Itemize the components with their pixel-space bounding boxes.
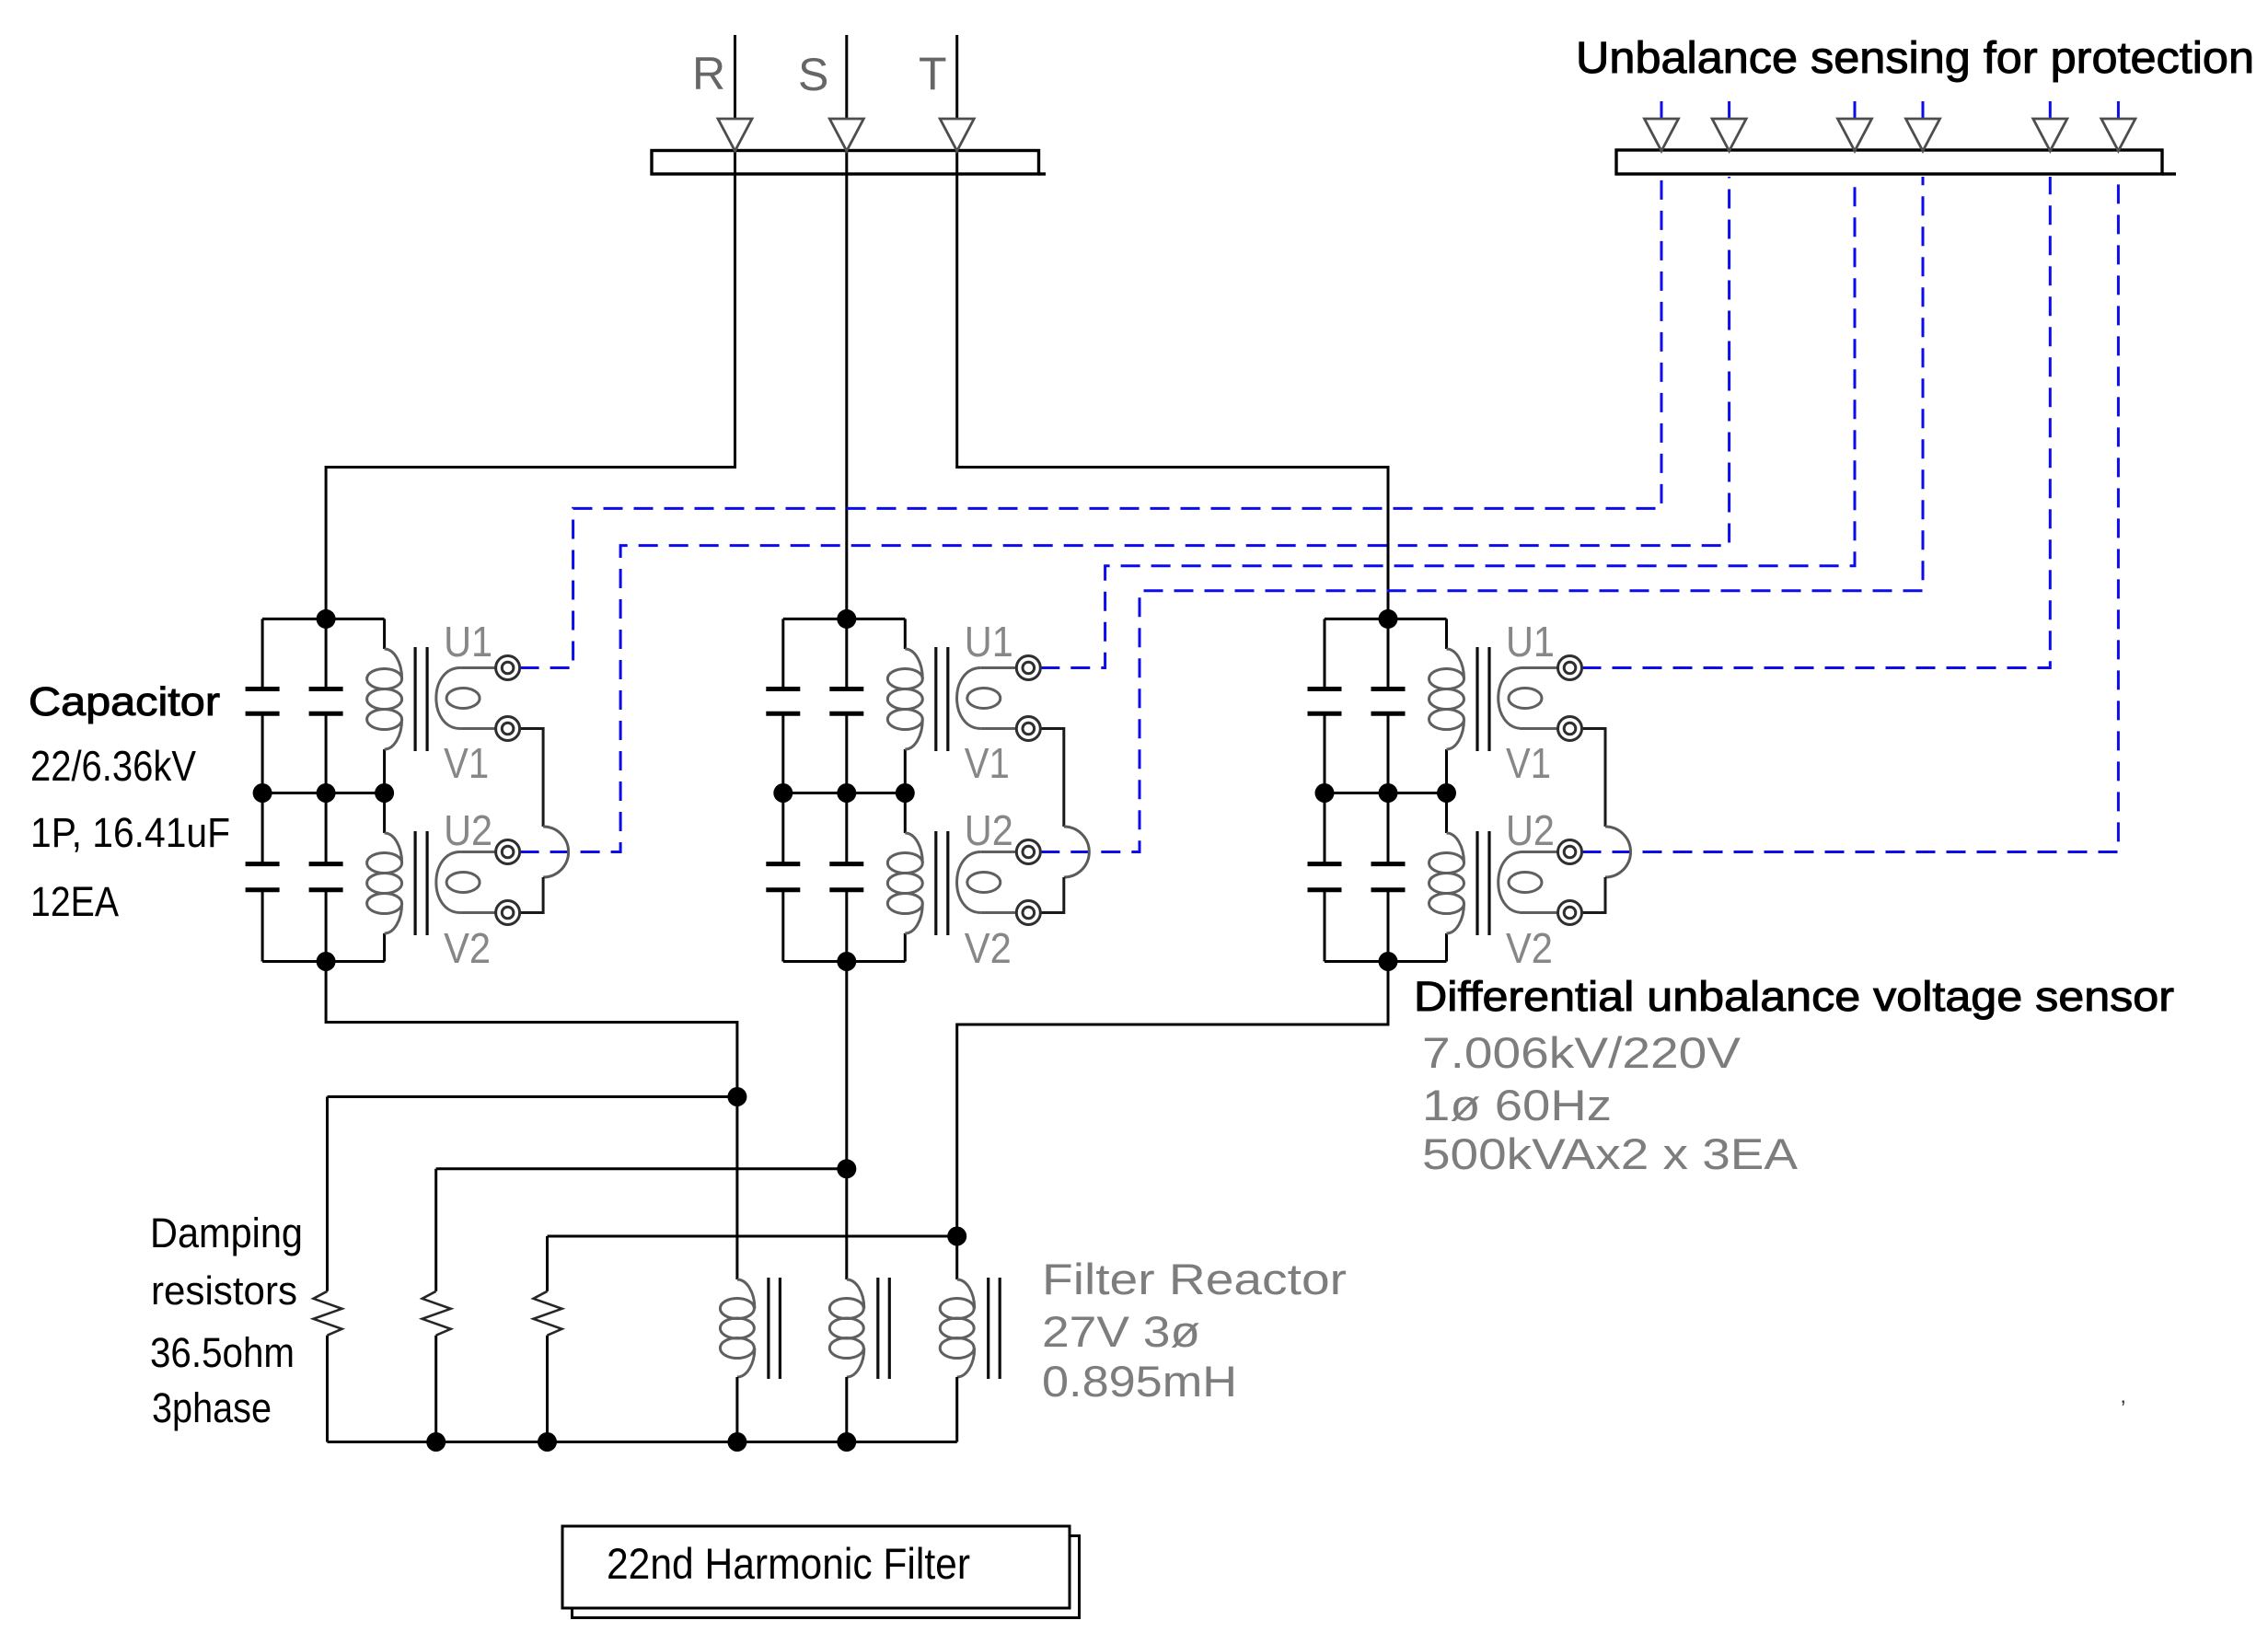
wire: reactor L2 to bottom rail [845, 1377, 848, 1442]
capacitor right block C3 (middle upper) [1371, 689, 1406, 714]
left block U2 sensing line [520, 177, 1730, 852]
label: Differential unbalance voltage sensor [1414, 973, 2174, 1020]
node right block mid junctions [1315, 783, 1457, 803]
transformer left block VT2 primary coil [367, 833, 402, 933]
node left block top junction [317, 609, 336, 629]
capacitor right block C1 (left upper) [1308, 689, 1342, 714]
sensing input stub 5 (blue dashed) [2049, 101, 2052, 119]
transformer left block VT2 core [415, 831, 427, 935]
svg-text:1P, 16.41uF: 1P, 16.41uF [30, 809, 230, 856]
label right block U2 [1506, 806, 1555, 854]
terminal left block V2 [496, 901, 520, 925]
middle block U2 sensing line [1040, 177, 1923, 852]
middle block U1 sensing line [1040, 177, 1855, 668]
arrow on sensing input 3 [1838, 119, 1872, 151]
phase R wire (vertical drop + feed to left block) [326, 35, 735, 619]
label: Damping [150, 1210, 303, 1256]
wire: left block middle bar [262, 792, 385, 794]
label: 36.5ohm [150, 1329, 295, 1376]
resistor R1 (damping) [314, 1097, 342, 1442]
sensing input stub 1 (blue dashed) [1660, 101, 1663, 119]
label left block V1 [444, 739, 489, 787]
node left block bottom junction [317, 952, 336, 971]
svg-text:Differential unbalance voltage: Differential unbalance voltage sensor [1414, 973, 2174, 1020]
title: Unbalance sensing for protection [1576, 34, 2254, 83]
terminal middle block U2 [1016, 840, 1040, 864]
svg-text:7.006kV/220V: 7.006kV/220V [1422, 1028, 1741, 1077]
node rail1-reactor junction [727, 1087, 746, 1106]
svg-text:Filter Reactor: Filter Reactor [1042, 1255, 1347, 1303]
transformer left block VT1 primary coil [367, 649, 402, 749]
capacitor right block C2 (left lower) [1308, 864, 1342, 890]
svg-text:22nd Harmonic Filter: 22nd Harmonic Filter [607, 1539, 970, 1588]
wire: middle block top bar [783, 618, 906, 620]
wire: damping rail 1 [328, 1095, 737, 1098]
node rail2-reactor junction [837, 1159, 856, 1178]
resistor R2 (damping) [422, 1169, 451, 1442]
right block U1 sensing line [1582, 177, 2051, 668]
svg-text:3phase: 3phase [152, 1384, 272, 1431]
arrow on sensing input 2 [1712, 119, 1746, 151]
node middle block mid junctions [773, 783, 915, 803]
left block U1 sensing line [520, 177, 1661, 668]
stray apostrophe mark [2121, 1396, 2125, 1421]
terminal middle block V2 [1016, 901, 1040, 925]
svg-text:1ø 60Hz: 1ø 60Hz [1422, 1081, 1612, 1129]
node middle block bottom junction [837, 952, 856, 971]
label T [919, 48, 947, 99]
wire: left block V1-V2 link with crossover arc [520, 729, 569, 913]
transformer right block VT1 secondary coil [1498, 668, 1557, 729]
label right block U1 [1506, 618, 1555, 666]
wire: middle block middle bar [783, 792, 906, 794]
sensing input stub 4 (blue dashed) [1922, 101, 1925, 119]
svg-text:U2: U2 [1506, 806, 1555, 854]
label left block U1 [444, 618, 492, 666]
wire: left block transformer branch [383, 619, 386, 961]
wire: left block left string [261, 619, 264, 961]
main busbar [652, 151, 1046, 175]
filter reactor L2 coil [829, 1279, 864, 1377]
node bottom rail junctions [426, 1432, 856, 1452]
svg-text:U2: U2 [965, 806, 1013, 854]
wire: right block top bar [1325, 618, 1447, 620]
label middle block U2 [965, 806, 1013, 854]
label: 500kVAx2 x 3EA [1422, 1129, 1799, 1178]
arrow on phase T [940, 119, 974, 151]
label middle block V1 [965, 739, 1010, 787]
wire: left block to reactor column [326, 962, 737, 1280]
phase S wire (vertical drop to middle block) [845, 35, 848, 619]
arrow on sensing input 4 [1906, 119, 1940, 151]
wire: damping rail 2 [436, 1167, 847, 1170]
capacitor left block C1 (left upper) [246, 689, 280, 714]
phase T wire (vertical drop + feed to right block) [957, 35, 1388, 619]
label middle block U1 [965, 618, 1013, 666]
label S [798, 49, 828, 100]
transformer right block VT2 primary coil [1429, 833, 1464, 933]
svg-text:U1: U1 [965, 618, 1013, 666]
terminal right block V2 [1558, 901, 1582, 925]
transformer middle block VT2 core [936, 831, 948, 935]
terminal left block U1 [496, 656, 520, 680]
node rail3-reactor junction [947, 1227, 966, 1246]
capacitor middle block C3 (middle upper) [829, 689, 863, 714]
svg-text:U1: U1 [444, 618, 492, 666]
label: 12EA [30, 878, 119, 925]
wire: right block V1-V2 link with crossover arc [1582, 729, 1631, 913]
label: 1phase 60Hz [1422, 1081, 1612, 1129]
transformer right block VT2 core [1477, 831, 1489, 935]
transformer left block VT1 secondary coil [436, 668, 495, 729]
transformer right block VT2 secondary coil [1498, 852, 1557, 913]
arrow on phase S [829, 119, 863, 151]
transformer left block VT2 secondary coil [436, 852, 495, 913]
wire: middle block transformer branch [904, 619, 907, 961]
sensing input stub 3 (blue dashed) [1854, 101, 1857, 119]
transformer middle block VT1 primary coil [887, 649, 922, 749]
terminal right block V1 [1558, 717, 1582, 741]
sensing input stub 2 (blue dashed) [1728, 101, 1730, 119]
wire: left block top bar [262, 618, 385, 620]
svg-text:12EA: 12EA [30, 878, 119, 925]
filter reactor L2 core [878, 1278, 890, 1379]
wire: middle block left string [781, 619, 784, 961]
node middle block top junction [837, 609, 856, 629]
wire: bottom rail [328, 1441, 957, 1443]
arrow on phase R [718, 119, 752, 151]
wire: right block bottom bar [1325, 960, 1447, 963]
capacitor left block C2 (left lower) [246, 864, 280, 890]
transformer right block VT1 core [1477, 647, 1489, 751]
svg-text:resistors: resistors [151, 1268, 297, 1314]
svg-text:36.5ohm: 36.5ohm [150, 1329, 295, 1376]
wire: middle block feed string [845, 619, 848, 961]
wire: reactor L1 to bottom rail [735, 1377, 738, 1442]
label: 22nd Harmonic Filter [607, 1539, 970, 1588]
svg-text:U1: U1 [1506, 618, 1555, 666]
arrow on sensing input 5 [2033, 119, 2067, 151]
wire: reactor L3 to bottom rail [955, 1377, 958, 1442]
wire: middle block V1-V2 link with crossover arc [1040, 729, 1089, 913]
label: Filter Reactor [1042, 1255, 1347, 1303]
terminal left block V1 [496, 717, 520, 741]
node left block mid junctions [253, 783, 395, 803]
filter reactor L3 coil [940, 1279, 975, 1377]
label: Capacitor [29, 679, 220, 724]
terminal right block U2 [1558, 840, 1582, 864]
sensing input stub 6 (blue dashed) [2117, 101, 2120, 119]
wire: middle block bottom bar [783, 960, 906, 963]
label left block U2 [444, 806, 492, 854]
label: 3phase [152, 1384, 272, 1431]
filter reactor L1 core [769, 1278, 781, 1379]
wire: right block to reactor column [957, 962, 1388, 1280]
terminal middle block V1 [1016, 717, 1040, 741]
label left block V2 [444, 924, 491, 972]
svg-text:0.895mH: 0.895mH [1042, 1357, 1237, 1406]
label: 1P, 16.41uF [30, 809, 230, 856]
resistor R3 (damping) [534, 1236, 562, 1442]
transformer middle block VT1 core [936, 647, 948, 751]
label R [692, 48, 725, 99]
svg-text:500kVAx2 x 3EA: 500kVAx2 x 3EA [1422, 1129, 1799, 1178]
label right block V1 [1506, 739, 1551, 787]
filter reactor L1 coil [720, 1279, 755, 1377]
wire: right block middle bar [1325, 792, 1447, 794]
sensing busbar [1616, 150, 2176, 174]
capacitor right block C4 (middle lower) [1371, 864, 1406, 890]
svg-text:T: T [919, 48, 947, 99]
label: 27V 3phase [1042, 1307, 1200, 1356]
svg-text:R: R [692, 48, 725, 99]
svg-text:22/6.36kV: 22/6.36kV [30, 742, 196, 790]
label: 22/6.36kV [30, 742, 196, 790]
svg-text:Capacitor: Capacitor [29, 679, 220, 724]
wire: right block transformer branch [1445, 619, 1448, 961]
wire: damping rail 3 [548, 1235, 957, 1238]
svg-text:V2: V2 [965, 924, 1012, 972]
node right block bottom junction [1379, 952, 1398, 971]
22nd Harmonic Filter box [562, 1526, 1080, 1618]
node right block top junction [1379, 609, 1398, 629]
svg-text:Unbalance sensing for protecti: Unbalance sensing for protection [1576, 34, 2254, 83]
label middle block V2 [965, 924, 1012, 972]
transformer left block VT1 core [415, 647, 427, 751]
wire: right block feed string [1387, 619, 1390, 961]
svg-text:Damping: Damping [150, 1210, 303, 1256]
wire: middle block to reactor column [845, 962, 848, 1280]
label: 7.006kV/220V [1422, 1028, 1741, 1077]
svg-text:V1: V1 [444, 739, 489, 787]
svg-text:S: S [798, 49, 828, 100]
capacitor left block C4 (middle lower) [309, 864, 343, 890]
svg-text:V2: V2 [444, 924, 491, 972]
capacitor middle block C4 (middle lower) [829, 864, 863, 890]
transformer right block VT1 primary coil [1429, 649, 1464, 749]
capacitor left block C3 (middle upper) [309, 689, 343, 714]
transformer middle block VT2 primary coil [887, 833, 922, 933]
svg-text:U2: U2 [444, 806, 492, 854]
capacitor middle block C2 (left lower) [766, 864, 800, 890]
capacitor middle block C1 (left upper) [766, 689, 800, 714]
transformer middle block VT2 secondary coil [957, 852, 1016, 913]
right block U2 sensing line [1582, 177, 2119, 852]
arrow on sensing input 1 [1645, 119, 1679, 151]
svg-text:’: ’ [2121, 1396, 2125, 1421]
wire: right block left string [1324, 619, 1326, 961]
filter reactor L3 core [989, 1278, 1001, 1379]
terminal middle block U1 [1016, 656, 1040, 680]
label: resistors [151, 1268, 297, 1314]
terminal right block U1 [1558, 656, 1582, 680]
svg-text:V1: V1 [1506, 739, 1551, 787]
svg-text:V2: V2 [1506, 924, 1553, 972]
label right block V2 [1506, 924, 1553, 972]
wire: left block bottom bar [262, 960, 385, 963]
transformer middle block VT1 secondary coil [957, 668, 1016, 729]
svg-text:V1: V1 [965, 739, 1010, 787]
arrow on sensing input 6 [2101, 119, 2135, 151]
wire: left block feed string [325, 619, 328, 961]
label: 0.895mH [1042, 1357, 1237, 1406]
svg-text:27V 3ø: 27V 3ø [1042, 1307, 1200, 1356]
terminal left block U2 [496, 840, 520, 864]
